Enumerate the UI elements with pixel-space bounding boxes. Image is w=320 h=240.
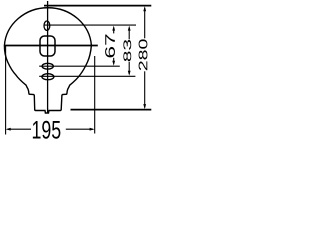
mounting plate rounded rect: [40, 36, 55, 56]
mounting hole A: [42, 63, 53, 69]
arrowhead 280 up: [143, 6, 146, 11]
dimension line 280 lower segment: [144, 71, 146, 107]
dimension line 83 upper segment: [128, 28, 130, 40]
right extension line 195: [94, 56, 96, 134]
dim text 67: [105, 35, 115, 58]
left extension line 195: [5, 46, 7, 135]
knob ellipse E1: [44, 21, 50, 30]
dim text 195: [33, 121, 61, 139]
arrowhead 67 down: [112, 61, 115, 66]
arrowhead 280 down: [143, 104, 146, 109]
leader line from hole B: [39, 75, 135, 77]
dimension line 195 left segment: [8, 128, 32, 130]
dim text 83: [123, 40, 131, 61]
leader line from hole A: [39, 65, 120, 67]
dim text 280: [139, 39, 148, 70]
top extension line: [44, 5, 151, 7]
dimension line 83 lower segment: [128, 62, 130, 74]
dimension line 195 right segment: [66, 128, 93, 130]
leader line from E1: [44, 24, 137, 26]
globe outline: [4, 8, 91, 113]
arrowhead 83 up: [128, 26, 131, 31]
dimension line 67 upper segment: [113, 28, 115, 34]
mounting hole B: [42, 74, 54, 80]
arrowhead 195 left: [6, 128, 11, 131]
arrowhead 67 up: [112, 26, 115, 31]
dimension line 280 upper segment: [144, 8, 146, 39]
dimension line 67 lower segment: [113, 58, 115, 64]
vertical centerline: [47, 1, 49, 113]
arrowhead 195 right: [90, 128, 95, 131]
arrowhead 83 down: [128, 71, 131, 76]
bottom extension line: [71, 109, 152, 111]
horizontal centerline: [4, 45, 98, 47]
